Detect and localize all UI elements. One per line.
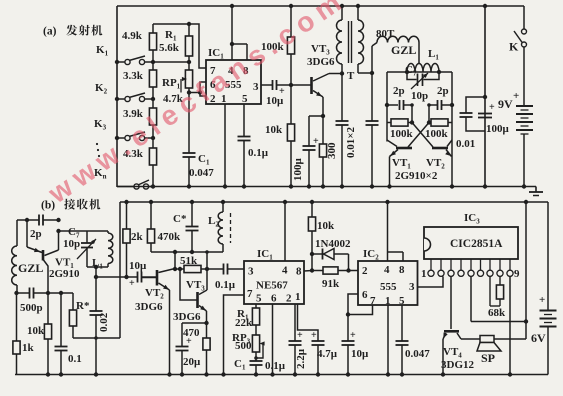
ellipsis dots between K3 and Kn xyxy=(96,143,98,145)
node: K2 tap xyxy=(151,97,155,101)
capacitor 100u supply xyxy=(478,113,492,115)
wire: chain top xyxy=(152,24,154,33)
resistor 1k xyxy=(16,293,18,341)
node: IC2 rail tap xyxy=(385,200,389,204)
wire: receiver left column xyxy=(119,202,121,338)
svg-text:2: 2 xyxy=(362,265,368,277)
node: 470k top xyxy=(149,200,153,204)
svg-text:4: 4 xyxy=(282,265,288,277)
svg-text:5.6k: 5.6k xyxy=(159,42,180,54)
node: R1-RP1 junction xyxy=(187,60,191,64)
op-amp U IC3 CIC2851A box xyxy=(424,227,518,259)
transistor VT3 3DG6 xyxy=(310,77,313,94)
svg-text:9V: 9V xyxy=(498,97,513,111)
wire: cross-couple j1 to VT2 base xyxy=(412,123,433,148)
resistor R1 22k xyxy=(252,308,259,325)
node: battery ground xyxy=(522,184,526,188)
capacitor C1 0.047 xyxy=(183,152,196,154)
svg-text:10μ: 10μ xyxy=(129,260,147,272)
node: output bus junction xyxy=(524,319,528,323)
node: collector/primary junction xyxy=(340,71,344,75)
potentiometer RP3 500 xyxy=(252,335,259,352)
wire: IC2 pin6 stub xyxy=(348,294,358,315)
capacitor 0.02 xyxy=(95,267,97,277)
svg-text:RP1: RP1 xyxy=(162,77,181,91)
svg-text:68k: 68k xyxy=(488,307,506,319)
resistor 10k (receiver) xyxy=(47,293,49,324)
switch Kn (in ground rail) xyxy=(117,186,134,188)
node: VCC tap for IC1 xyxy=(230,4,234,8)
transformer T primary xyxy=(341,6,343,20)
wire: tank right column xyxy=(451,72,453,187)
wire: IC1 pin1 to ground xyxy=(224,104,226,187)
svg-text:K1: K1 xyxy=(96,44,109,58)
svg-text:1: 1 xyxy=(295,291,301,303)
node: rail tap x485 xyxy=(483,4,487,8)
capacitor 2p left xyxy=(387,104,398,106)
svg-text:10k: 10k xyxy=(265,124,283,136)
wire: 2p left down xyxy=(411,105,413,123)
node: secondary top xyxy=(356,4,360,8)
switch K3 xyxy=(117,137,125,139)
node: rail tap x291 xyxy=(289,4,293,8)
resistor 91k xyxy=(312,270,323,272)
node: 91k right xyxy=(346,268,350,272)
wire: IC1 pin5 down xyxy=(243,104,245,137)
wire: oscillator collector bus xyxy=(151,251,223,253)
node: secondary bottom junction xyxy=(370,71,374,75)
capacitor 20u xyxy=(181,330,183,347)
capacitor 10u (IC2) xyxy=(347,315,349,342)
resistor 3.3k xyxy=(149,70,156,87)
battery 6V xyxy=(547,202,549,311)
wire: IC2 pin1 to ground xyxy=(387,305,389,375)
wire: IC2 pin7 jog xyxy=(348,305,373,315)
diode 1N4002 xyxy=(312,253,323,255)
wire: RP1 bottom to pins 2,6 xyxy=(189,92,200,94)
node: VT2 emitter ground xyxy=(450,184,454,188)
transistor VT2 2G910 xyxy=(432,147,448,150)
node: collector junction (VT2) xyxy=(173,267,177,271)
svg-text:0.1μ: 0.1μ xyxy=(215,279,236,291)
svg-text:6V: 6V xyxy=(531,331,546,345)
IC3 pin circles xyxy=(428,270,434,276)
node: 10k ground (receiver) xyxy=(46,372,50,376)
svg-text:0.1: 0.1 xyxy=(68,353,82,365)
svg-text:0.047: 0.047 xyxy=(189,167,214,179)
svg-text:3: 3 xyxy=(253,81,259,93)
node: VT3 emitter node xyxy=(204,321,208,325)
svg-text:1N4002: 1N4002 xyxy=(315,238,351,250)
wire: K1 row to RP1 top xyxy=(153,61,189,63)
capacitor C7 10p variable (receiver) xyxy=(86,231,88,243)
svg-text:+: + xyxy=(186,336,192,347)
resistor R1 5.6k xyxy=(188,24,190,36)
node: RP1 bottom xyxy=(187,90,191,94)
node: 2p left junctions xyxy=(385,103,389,107)
node: 2k bottom junction xyxy=(124,275,128,279)
svg-text:3: 3 xyxy=(409,281,415,293)
resistor 100k (VT3 base) xyxy=(290,6,292,37)
svg-text:GZL: GZL xyxy=(391,43,416,57)
node: tank bottom tap xyxy=(94,265,98,269)
node: pin2/6 junction xyxy=(198,90,202,94)
wire: 2p right down xyxy=(428,105,430,123)
svg-text:6: 6 xyxy=(362,289,368,301)
svg-text:0.1μ: 0.1μ xyxy=(265,360,286,372)
transistor VT1 2G910 xyxy=(396,147,412,150)
node: C1 ground xyxy=(187,184,191,188)
node: 2k top xyxy=(124,200,128,204)
inductor L1 (transmitter) xyxy=(407,64,439,72)
wire: transmitter V+ top rail xyxy=(117,5,524,7)
svg-text:C1: C1 xyxy=(198,153,210,167)
potentiometer RP1 4.7k xyxy=(188,62,190,70)
svg-text:1: 1 xyxy=(421,268,427,280)
svg-text:5: 5 xyxy=(242,93,248,105)
node: 500p junction a xyxy=(14,291,18,295)
wire: tank top xyxy=(387,71,452,73)
svg-text:IC1: IC1 xyxy=(208,47,224,61)
wire: NE567 pin7 to ground xyxy=(224,295,245,375)
node: K3 left xyxy=(115,136,119,140)
node: 2p right junctions xyxy=(450,103,454,107)
node: L2 top xyxy=(221,200,225,204)
svg-text:10μ: 10μ xyxy=(351,348,369,360)
antenna coil GZL xyxy=(16,220,18,246)
node: 100u ground xyxy=(307,184,311,188)
wire: IC1 pin3 out xyxy=(261,84,272,86)
resistor 51k xyxy=(184,265,201,272)
wire: emitter branch xyxy=(309,115,323,117)
wire: NE567 pin4 to rail xyxy=(284,202,286,261)
svg-text:K2: K2 xyxy=(95,82,108,96)
svg-text:20μ: 20μ xyxy=(183,356,201,368)
svg-text:VT2: VT2 xyxy=(145,287,164,301)
svg-text:0.1μ: 0.1μ xyxy=(248,147,269,159)
node: 0.1 junction xyxy=(59,291,63,295)
svg-text:2.2μ: 2.2μ xyxy=(295,348,307,369)
wire: IC3 pin3 to VT4 base xyxy=(450,277,452,330)
node: pin4/8 bracket xyxy=(230,42,234,46)
node: bypass top xyxy=(483,95,487,99)
svg-text:C*: C* xyxy=(173,213,187,225)
node: tank left L1 xyxy=(405,70,409,74)
svg-text:80T: 80T xyxy=(376,28,395,40)
node: 2.2u ground xyxy=(293,372,297,376)
node: R1 top xyxy=(187,22,191,26)
resistor 10k (VT3 base) xyxy=(290,85,292,124)
svg-text:T: T xyxy=(347,70,355,82)
wire: riser diode-91k xyxy=(311,254,313,271)
svg-text:R1: R1 xyxy=(165,29,177,43)
svg-text:2k: 2k xyxy=(131,231,144,243)
wire: main V+ column xyxy=(484,6,486,187)
node: cap a ground xyxy=(340,184,344,188)
node: signal junction x207 xyxy=(205,267,209,271)
node: primary top xyxy=(340,4,344,8)
op-amp U IC2 555 box xyxy=(358,261,418,305)
node: pin1 ground (IC2) xyxy=(386,372,390,376)
wire: tank top (receiver) xyxy=(59,230,109,232)
node: 300 ground xyxy=(321,184,325,188)
svg-text:3: 3 xyxy=(248,266,254,278)
wire: IC3 pin9 to ground xyxy=(509,277,511,375)
svg-text:0.02: 0.02 xyxy=(98,312,110,332)
svg-text:VT2: VT2 xyxy=(426,157,445,171)
wire: receiver ground rail xyxy=(15,374,548,376)
wire: to capacitor C1 xyxy=(188,93,190,154)
resistor R* xyxy=(72,293,74,310)
node: RP3 wiper join xyxy=(254,356,258,360)
resistor 300 xyxy=(322,116,324,144)
node: emitter tap xyxy=(25,218,29,222)
svg-text:1k: 1k xyxy=(22,342,35,354)
resistor 470k xyxy=(150,202,152,229)
wire: transmitter left column xyxy=(116,6,118,187)
node: pin9 ground xyxy=(508,372,512,376)
svg-text:0.01×2: 0.01×2 xyxy=(345,126,357,158)
node: VT2 emitter ground (receiver) xyxy=(167,372,171,376)
inductor GZL 80T winding xyxy=(377,36,419,42)
resistor 100k right xyxy=(448,122,452,124)
node: 0.1u ground xyxy=(242,184,246,188)
transistor VT1 2G910 (receiver) xyxy=(42,250,45,261)
node: j1 xyxy=(410,120,414,124)
node: main column ground xyxy=(483,184,487,188)
wire: bus to signal xyxy=(174,252,176,269)
capacitor C7 variable xyxy=(407,72,417,80)
transistor VT3 3DG6 (receiver) xyxy=(196,292,199,308)
svg-text:CIC2851A: CIC2851A xyxy=(450,238,503,250)
node: pin6 ground xyxy=(270,372,274,376)
svg-text:2G910×2: 2G910×2 xyxy=(395,170,438,182)
node: K1 left xyxy=(115,60,119,64)
wire: receiver V+ top rail xyxy=(120,201,548,203)
svg-text:3DG6: 3DG6 xyxy=(173,311,201,323)
node: V+ right rail tap xyxy=(524,200,528,204)
switch K (power) xyxy=(523,6,525,29)
capacitor C1 0.1u (receiver) xyxy=(250,360,263,362)
svg-text:500p: 500p xyxy=(20,302,43,314)
resistor 3.9k xyxy=(149,108,156,125)
svg-text:IC2: IC2 xyxy=(363,248,379,262)
node: tank top tap xyxy=(56,229,60,233)
capacitor 2p feedback xyxy=(17,219,39,221)
node: 470 ground xyxy=(204,372,208,376)
wire: x207 riser xyxy=(206,252,208,290)
node: VT1 emitter ground xyxy=(387,184,391,188)
svg-text:+: + xyxy=(539,294,545,306)
svg-text:NE567: NE567 xyxy=(256,280,288,292)
wire: NE567 pin6 to ground xyxy=(272,304,274,375)
node: emitter junction xyxy=(321,114,325,118)
node: VT3 base tap xyxy=(178,267,182,271)
wire: cross-couple j2 to VT1 base xyxy=(408,123,429,148)
node: 10k ground xyxy=(289,184,293,188)
node: VT4 emitter ground xyxy=(441,372,445,376)
node: C* bottom xyxy=(190,250,194,254)
node: osc bus tap xyxy=(173,250,177,254)
capacitor 0.1 (receiver) xyxy=(60,293,62,347)
resistor 4.3k xyxy=(149,148,156,165)
wire: IC1 pin6 stub xyxy=(200,82,206,93)
svg-text:0.01: 0.01 xyxy=(456,138,475,150)
svg-text:(a): (a) xyxy=(43,26,57,38)
svg-text:VT1: VT1 xyxy=(392,157,411,171)
node: K1 tap on chain xyxy=(151,60,155,64)
node: pin1 ground xyxy=(223,184,227,188)
svg-text:2G910: 2G910 xyxy=(49,268,80,280)
node: x207 top xyxy=(205,250,209,254)
svg-text:500: 500 xyxy=(235,340,252,352)
svg-text:VT3: VT3 xyxy=(311,43,330,57)
wire: chain top to R1 top xyxy=(153,23,189,25)
svg-text:IC1: IC1 xyxy=(257,248,273,262)
svg-text:100μ: 100μ xyxy=(292,158,304,182)
svg-text:(b): (b) xyxy=(41,200,55,212)
wire: transmitter ground rail xyxy=(117,186,536,188)
svg-text:GZL: GZL xyxy=(18,261,43,275)
svg-text:4.9k: 4.9k xyxy=(122,30,143,42)
svg-text:4.7μ: 4.7μ xyxy=(317,348,338,360)
svg-text:7: 7 xyxy=(247,288,253,300)
svg-text:22k: 22k xyxy=(235,317,253,329)
svg-text:+: + xyxy=(129,278,135,289)
wire: to 80T coil xyxy=(371,46,373,73)
node: K2 left xyxy=(115,97,119,101)
node: pin4 rail tap xyxy=(283,200,287,204)
svg-text:VT3: VT3 xyxy=(186,279,205,293)
wire: 91k to IC2 pin2 xyxy=(349,270,359,272)
resistor 68k xyxy=(489,277,491,307)
svg-text:10μ: 10μ xyxy=(266,95,284,107)
capacitor 0.01x2 b xyxy=(371,73,373,121)
capacitor 0.1u (pin5) xyxy=(238,136,251,138)
svg-text:C7: C7 xyxy=(405,64,417,78)
svg-text:0.047: 0.047 xyxy=(405,348,430,360)
svg-text:2: 2 xyxy=(286,293,292,305)
svg-text:10k: 10k xyxy=(27,325,45,337)
node: base node xyxy=(289,83,293,87)
node: 10k top rail tap xyxy=(310,200,314,204)
svg-text:+: + xyxy=(350,330,356,341)
svg-text:+: + xyxy=(311,330,317,341)
wire: IC1 pins 4,8 to rail xyxy=(231,6,233,44)
wire: IC3 pin5 to output bus xyxy=(470,277,472,322)
switch K2 xyxy=(117,98,125,100)
svg-text:5: 5 xyxy=(256,293,262,305)
resistor 10k (detector) xyxy=(311,202,313,217)
capacitor 2.2u xyxy=(294,304,296,341)
wire: tank left column xyxy=(386,72,388,142)
svg-text:+: + xyxy=(489,102,495,113)
svg-text:300: 300 xyxy=(326,142,338,159)
resistor 4.9k xyxy=(149,33,156,50)
svg-text:3DG6: 3DG6 xyxy=(135,301,163,313)
wire: R1 top to IC1 pin7 xyxy=(189,24,206,68)
wire: junction to IC1 pin2 xyxy=(200,93,206,97)
svg-text:91k: 91k xyxy=(322,278,340,290)
svg-text:100k: 100k xyxy=(425,128,449,140)
svg-text:R*: R* xyxy=(76,300,90,312)
node: 0.047 ground xyxy=(400,372,404,376)
wire: V+ right column xyxy=(525,202,527,339)
node: 20u ground xyxy=(180,372,184,376)
svg-text:L1: L1 xyxy=(92,257,103,271)
inductor L2 xyxy=(222,202,224,212)
capacitor C* xyxy=(191,202,193,227)
node: 10u ground (IC2) xyxy=(346,372,350,376)
capacitor 500p xyxy=(17,292,30,294)
svg-text:+: + xyxy=(513,90,519,102)
svg-text:8: 8 xyxy=(399,264,405,276)
svg-text:555: 555 xyxy=(380,281,397,293)
svg-text:10p: 10p xyxy=(63,238,80,250)
resistor 2k xyxy=(126,202,128,229)
inductor L1 (receiver) xyxy=(107,231,109,233)
capacitor 0.047 (IC2) xyxy=(401,305,403,341)
capacitor 0.01 bypass xyxy=(466,97,485,113)
node: C1 ground (receiver) xyxy=(254,372,258,376)
node: j2 xyxy=(427,120,431,124)
wire: VT3 base path xyxy=(180,269,197,300)
node: base junction xyxy=(46,291,50,295)
svg-text:SP: SP xyxy=(481,351,495,365)
svg-text:IC3: IC3 xyxy=(464,212,480,226)
capacitor 4.7u xyxy=(298,304,319,341)
transformer T secondary xyxy=(357,6,359,20)
RP1 wiper arrow xyxy=(180,79,182,93)
svg-text:L1: L1 xyxy=(428,48,439,62)
node: 0.1 ground (receiver) xyxy=(59,372,63,376)
capacitor 10u (mixer) xyxy=(137,272,139,283)
svg-text:K3: K3 xyxy=(94,118,107,132)
node: C* top xyxy=(190,200,194,204)
wire: NE567 pin5 chain xyxy=(255,304,257,308)
svg-text:+: + xyxy=(313,136,319,147)
svg-text:6: 6 xyxy=(271,293,277,305)
node: 0.02 junctions xyxy=(94,275,98,279)
wire: emitter node branch xyxy=(182,322,207,324)
capacitor 100u (emitter) xyxy=(308,116,310,146)
node: 91k left xyxy=(310,268,314,272)
svg-text:3DG6: 3DG6 xyxy=(307,56,335,68)
svg-text:100μ: 100μ xyxy=(486,123,510,135)
ground symbol (transmitter) xyxy=(535,187,537,193)
resistor 100k left (VT multivib) xyxy=(387,122,391,124)
resistor 470 xyxy=(206,323,208,338)
transformer T core xyxy=(348,21,350,63)
svg-text:10k: 10k xyxy=(317,220,335,232)
wire: IC2 pin3 to IC3 xyxy=(418,277,444,288)
svg-text:C1: C1 xyxy=(234,358,246,372)
svg-text:4: 4 xyxy=(384,264,390,276)
wire: tank to mixer xyxy=(95,267,97,277)
node: tank right L1 xyxy=(437,70,441,74)
svg-text:+: + xyxy=(297,330,303,341)
wire: mixer wire xyxy=(96,276,138,278)
svg-text:2p: 2p xyxy=(393,85,405,97)
node: 4.7u ground xyxy=(316,372,320,376)
capacitor 0.1u coupling (receiver) xyxy=(223,264,225,275)
node: cap b ground xyxy=(370,184,374,188)
svg-text:VT4: VT4 xyxy=(443,346,462,360)
IC3 pin stubs xyxy=(430,259,432,270)
op-amp U IC1 555 box xyxy=(206,60,261,104)
svg-text:8: 8 xyxy=(296,266,302,278)
svg-text:2p: 2p xyxy=(437,85,449,97)
